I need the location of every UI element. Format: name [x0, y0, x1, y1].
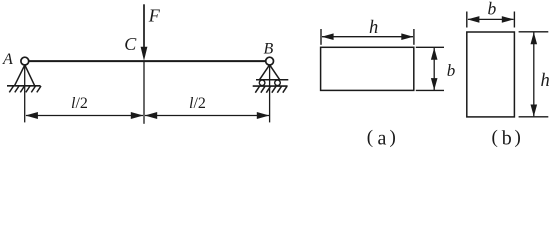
svg-text:C: C — [124, 34, 137, 54]
svg-text:h: h — [541, 71, 550, 91]
ground hatching A — [7, 86, 41, 93]
svg-text:h: h — [369, 18, 378, 38]
svg-text:l/2: l/2 — [71, 95, 88, 112]
svg-text:a: a — [378, 128, 387, 149]
roller support B — [256, 57, 288, 85]
cross-section (a) rectangle — [321, 47, 414, 90]
pin support A — [15, 57, 35, 85]
label h of (b) — [541, 71, 550, 91]
svg-text:l/2: l/2 — [189, 95, 206, 112]
svg-text:): ) — [515, 127, 521, 148]
extension line at A — [24, 65, 26, 122]
svg-text:b: b — [447, 61, 456, 80]
dimension h of (a) — [321, 29, 414, 45]
caption (a) — [367, 127, 396, 150]
label h of (a) — [369, 18, 378, 38]
svg-text:(: ( — [367, 127, 373, 148]
node A label — [2, 51, 13, 68]
svg-text:F: F — [148, 6, 161, 26]
label b of (a) — [447, 61, 456, 80]
svg-text:B: B — [264, 41, 274, 58]
svg-text:A: A — [2, 51, 13, 68]
dimension h of (b) — [519, 32, 549, 117]
dimension l/2 left — [25, 112, 143, 119]
label F — [148, 6, 161, 26]
node B label — [264, 41, 274, 58]
cross-section (b) rectangle — [467, 32, 515, 117]
dimension b of (a) — [416, 47, 444, 90]
svg-text:b: b — [488, 0, 497, 19]
svg-text:b: b — [502, 128, 512, 149]
force F arrow — [141, 4, 148, 61]
dimension l/2 right — [145, 112, 270, 119]
caption (b) — [492, 127, 521, 150]
svg-text:(: ( — [492, 127, 498, 148]
label C — [124, 34, 137, 54]
label l/2 right — [189, 95, 206, 112]
ground hatching B — [253, 86, 288, 93]
label l/2 left — [71, 95, 88, 112]
label b of (b) — [488, 0, 497, 19]
extension line at C — [143, 61, 145, 124]
extension line at B — [269, 65, 271, 122]
dimension b of (b) — [467, 12, 515, 28]
beam — [29, 60, 266, 62]
svg-text:): ) — [390, 127, 396, 148]
